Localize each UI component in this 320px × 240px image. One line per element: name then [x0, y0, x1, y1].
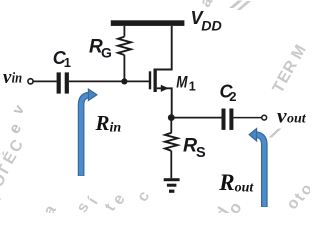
label Rin: [95, 111, 122, 135]
label M1: [176, 73, 196, 93]
svg-text:R: R: [218, 170, 234, 195]
wire: RG to gate node: [123, 55, 125, 81]
source arrow of M1: [161, 85, 169, 92]
svg-text:out: out: [287, 112, 307, 127]
label C2: [220, 82, 237, 105]
wire: RS to ground: [170, 151, 172, 179]
ground symbol: [164, 178, 180, 193]
wire: source node to C2: [171, 117, 221, 119]
arrow Rout (blue): [249, 129, 264, 208]
junction dot gate node: [121, 78, 127, 84]
transistor M1 gate bar: [149, 71, 151, 89]
label RS: [183, 134, 206, 161]
svg-text:a: a: [41, 202, 60, 213]
resistor RG zigzag: [118, 37, 131, 55]
output terminal circle: [262, 115, 267, 120]
junction dot source node: [168, 114, 175, 121]
label vout: [277, 106, 307, 128]
svg-text:1: 1: [64, 55, 71, 70]
svg-text:R: R: [183, 134, 197, 156]
svg-text:S: S: [196, 145, 206, 161]
label C1: [53, 48, 71, 70]
svg-text:G: G: [101, 45, 112, 61]
wire: VDD to RG: [123, 26, 125, 37]
label vin: [3, 67, 22, 88]
svg-text:in: in: [110, 120, 122, 135]
label VDD: [191, 8, 223, 33]
arrow Rin (blue): [81, 89, 97, 176]
svg-text:M: M: [176, 73, 188, 91]
svg-text:1: 1: [189, 79, 196, 93]
svg-text:r: r: [0, 191, 5, 203]
capacitor C1 plates: [57, 72, 69, 93]
svg-text:out: out: [235, 181, 255, 196]
wire: source link with arrow: [157, 88, 172, 117]
wire: source node to RS: [170, 118, 172, 133]
svg-text:c: c: [134, 188, 153, 205]
svg-text:in: in: [12, 71, 23, 87]
resistor RS zigzag: [165, 133, 178, 151]
svg-text:R: R: [95, 111, 110, 135]
svg-text:2: 2: [229, 89, 236, 104]
svg-text:e: e: [6, 121, 25, 137]
input terminal circle: [28, 79, 33, 84]
svg-text:e: e: [110, 191, 129, 208]
wire: terminal to C1: [33, 80, 57, 82]
svg-text:v: v: [3, 67, 12, 88]
transistor M1 channel bar: [154, 69, 157, 93]
label RG: [89, 36, 112, 60]
capacitor C2 plates: [222, 109, 234, 130]
label Rout: [218, 170, 254, 196]
wire: drain link: [156, 26, 172, 70]
wire: C2 to output terminal: [233, 117, 261, 119]
VDD rail bar: [111, 20, 185, 26]
svg-text:DD: DD: [201, 19, 222, 34]
wire: C1 to gate: [69, 80, 149, 82]
svg-text:M: M: [288, 42, 309, 62]
svg-text:v: v: [9, 101, 28, 117]
